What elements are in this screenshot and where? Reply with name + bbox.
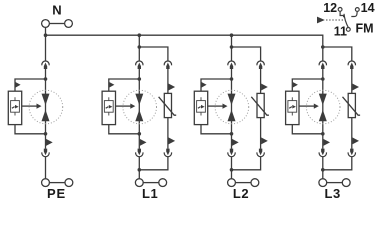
svg-text:L1: L1 (142, 186, 158, 201)
svg-text:N: N (52, 2, 61, 17)
svg-text:L2: L2 (233, 186, 249, 201)
svg-text:12: 12 (323, 1, 337, 15)
svg-text:L3: L3 (325, 186, 341, 201)
svg-text:11: 11 (334, 24, 347, 38)
svg-text:FM: FM (355, 21, 373, 35)
svg-text:14: 14 (361, 1, 375, 15)
svg-text:PE: PE (47, 186, 66, 201)
